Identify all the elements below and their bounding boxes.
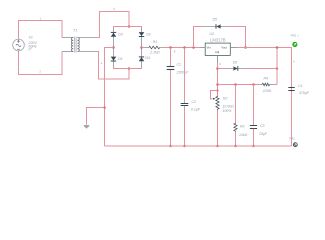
svg-text:10µF: 10µF xyxy=(259,132,268,136)
resistor R3 xyxy=(234,85,248,147)
junction vout branch top xyxy=(276,46,279,49)
svg-text:470µF: 470µF xyxy=(299,91,310,95)
wire adj pin down xyxy=(217,63,219,96)
wire secondary top to bridge xyxy=(97,12,129,38)
svg-text:C2: C2 xyxy=(192,100,197,104)
svg-text:220Ω: 220Ω xyxy=(262,89,272,93)
wire primary top xyxy=(19,21,63,40)
svg-text:T1: T1 xyxy=(73,29,77,33)
wire bridge bottom rail xyxy=(114,66,142,68)
diode D4 xyxy=(139,48,150,67)
junction bridge bottom xyxy=(128,67,131,70)
wire adj rail xyxy=(218,84,261,86)
svg-text:Vout: Vout xyxy=(221,45,227,49)
probe PR1 xyxy=(291,34,300,47)
svg-text:R2: R2 xyxy=(223,96,228,100)
junction adj rail xyxy=(216,83,219,86)
wire primary bottom xyxy=(19,51,63,75)
junction C3 top xyxy=(252,83,255,86)
junction ground tee xyxy=(103,106,106,109)
diode D3 xyxy=(111,29,123,48)
wire dc plus to R1 xyxy=(142,47,146,49)
wire adj to D6 xyxy=(218,68,227,70)
wire D5 loop xyxy=(194,27,246,48)
svg-text:0°: 0° xyxy=(29,48,33,52)
junction bridge top xyxy=(128,25,131,28)
svg-text:12kΩ: 12kΩ xyxy=(239,133,248,137)
diode D1 xyxy=(111,48,123,67)
wire bridge top rail xyxy=(114,27,142,30)
svg-text:0.1µF: 0.1µF xyxy=(191,107,201,111)
junction C1 top xyxy=(169,46,172,49)
regulator U2 LM317B xyxy=(200,32,237,63)
svg-text:2.2kΩ: 2.2kΩ xyxy=(149,51,160,55)
wire secondary bottom to bridge xyxy=(97,52,129,80)
junction C2 bottom xyxy=(183,145,186,148)
junction C1 bottom xyxy=(169,145,172,148)
diode D6 xyxy=(226,61,245,71)
diode D5 xyxy=(204,17,227,29)
junction R3 top xyxy=(234,83,237,86)
svg-text:PR2: PR2 xyxy=(289,137,295,141)
wire R1 to Vin xyxy=(162,47,201,49)
transformer T1 xyxy=(62,29,97,53)
svg-text:D1: D1 xyxy=(118,57,123,61)
junction C2 top xyxy=(183,46,186,49)
svg-text:+: + xyxy=(297,34,299,38)
potentiometer R2 xyxy=(211,91,234,147)
junction adj D6 branch xyxy=(216,67,219,70)
svg-text:C1: C1 xyxy=(177,62,182,66)
svg-text:PR1: PR1 xyxy=(291,34,297,38)
junction pot wiper tap xyxy=(216,89,218,91)
wire Vout rail xyxy=(237,48,291,147)
junction C3 bottom xyxy=(252,145,255,148)
diode D2 xyxy=(139,29,151,48)
svg-text:R3: R3 xyxy=(240,124,245,128)
junction D5 right xyxy=(244,46,247,49)
svg-text:C4: C4 xyxy=(298,84,303,88)
svg-text:100%: 100% xyxy=(222,109,231,113)
svg-text:Adj: Adj xyxy=(215,50,219,54)
junction bridge left mid xyxy=(112,46,115,49)
ground xyxy=(83,125,90,129)
svg-text:R4: R4 xyxy=(264,76,269,80)
junction D5 left xyxy=(192,46,195,49)
svg-text:D6: D6 xyxy=(233,61,238,65)
svg-text:2200µF: 2200µF xyxy=(176,70,190,74)
wire to ground xyxy=(87,108,105,125)
junction pot bottom xyxy=(216,145,219,148)
ac source V1 xyxy=(13,39,25,51)
svg-text:U2: U2 xyxy=(210,32,215,36)
probe PR2 xyxy=(289,137,297,147)
svg-text:V1: V1 xyxy=(29,35,33,39)
wire bottom rail xyxy=(105,145,292,147)
svg-text:D2: D2 xyxy=(146,33,151,37)
resistor R1 xyxy=(145,40,162,55)
svg-text:R1: R1 xyxy=(153,40,158,44)
svg-text:D4: D4 xyxy=(145,56,150,60)
capacitor C4 xyxy=(288,84,310,95)
svg-text:D5: D5 xyxy=(213,17,218,21)
wire vout branch vertical xyxy=(276,48,278,85)
capacitor C1 xyxy=(167,48,190,147)
svg-text:C3: C3 xyxy=(260,124,265,128)
label V1 xyxy=(28,35,38,51)
wire D6 to vout branch xyxy=(245,68,277,70)
svg-text:LM317B: LM317B xyxy=(210,38,226,43)
junction R3 bottom xyxy=(234,145,237,148)
capacitor C3 xyxy=(250,85,268,147)
wire dc minus xyxy=(105,48,114,147)
svg-text:Vin: Vin xyxy=(207,45,211,49)
resistor R4 xyxy=(260,76,277,93)
svg-text:D3: D3 xyxy=(118,33,123,37)
capacitor C2 xyxy=(181,48,201,147)
junction D6 right xyxy=(276,67,279,70)
junction bridge right mid xyxy=(140,46,143,49)
